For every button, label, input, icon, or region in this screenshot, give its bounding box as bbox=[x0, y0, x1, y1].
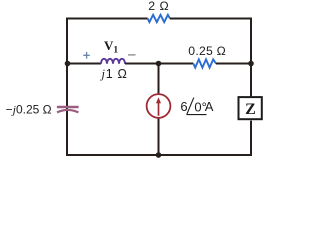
wire middle horizontal (left segment to inductor) bbox=[67, 63, 101, 65]
svg-text:2 Ω: 2 Ω bbox=[148, 0, 169, 13]
junction node right (middle-right) bbox=[248, 61, 254, 67]
svg-text:A: A bbox=[205, 99, 214, 114]
wire left vertical bbox=[66, 18, 68, 157]
capacitor -j0.25Ω curved plate bbox=[57, 110, 78, 112]
svg-text:0.25 Ω: 0.25 Ω bbox=[188, 44, 226, 58]
junction node center top (source top) bbox=[156, 61, 162, 67]
current source arrow shaft bbox=[158, 101, 160, 116]
angle symbol slash bbox=[187, 98, 194, 115]
svg-text:V1: V1 bbox=[104, 38, 118, 56]
svg-text:−j0.25 Ω: −j0.25 Ω bbox=[6, 102, 52, 116]
resistor 0.25Ω (zigzag) bbox=[193, 59, 216, 67]
capacitor -j0.25Ω top plate bbox=[57, 106, 79, 108]
impedance box Z bbox=[239, 97, 262, 119]
svg-text:j1 Ω: j1 Ω bbox=[100, 67, 128, 81]
wire current source branch (bottom) bbox=[158, 118, 160, 155]
wire bottom bbox=[66, 154, 251, 156]
wire middle horizontal (inductor to resistor) bbox=[125, 63, 193, 65]
resistor 2Ω (zigzag) bbox=[148, 15, 170, 22]
current source arrow head bbox=[156, 97, 161, 103]
wire current source branch (top) bbox=[158, 64, 160, 95]
minus sign (V1 polarity) bbox=[128, 54, 136, 56]
svg-text:Z: Z bbox=[245, 101, 256, 118]
junction node bottom (source bottom) bbox=[156, 152, 162, 158]
angle symbol underline bbox=[187, 114, 207, 116]
wire top (left segment) bbox=[67, 18, 148, 20]
plus sign (V1 polarity) bbox=[83, 52, 90, 59]
current source 6∠0°A (circle) bbox=[147, 94, 171, 118]
wire top (right segment) bbox=[170, 18, 252, 20]
wire right vertical (below Z box) bbox=[250, 121, 252, 156]
inductor j1Ω (coil) bbox=[101, 59, 125, 64]
wire right vertical (above Z box) bbox=[250, 18, 252, 97]
wire middle horizontal (resistor to right) bbox=[216, 63, 251, 65]
svg-text:6: 6 bbox=[180, 99, 187, 114]
junction node left (V1 +) bbox=[65, 61, 71, 67]
